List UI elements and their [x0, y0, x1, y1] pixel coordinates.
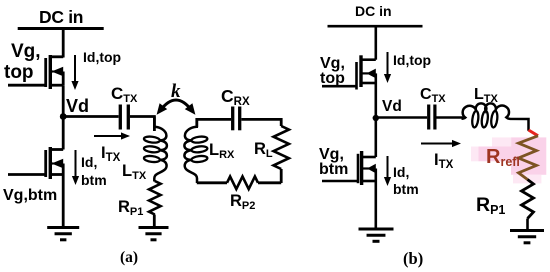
- svg-text:RL: RL: [254, 140, 273, 160]
- wire top source to Vd node (b): [374, 83, 377, 157]
- svg-text:(b): (b): [403, 249, 423, 268]
- svg-text:top: top: [320, 70, 345, 87]
- resistor R_P2 (a): [227, 177, 258, 190]
- svg-text:Vd: Vd: [382, 98, 402, 115]
- svg-text:k: k: [171, 81, 181, 102]
- inductor L_TX (b) horizontal: [462, 103, 529, 130]
- svg-text:RP1: RP1: [476, 194, 505, 217]
- svg-text:CTX: CTX: [111, 84, 138, 105]
- ground output branch (b): [510, 231, 544, 243]
- wire bottom source to ground (a): [62, 175, 65, 228]
- svg-text:RP1: RP1: [118, 198, 143, 218]
- svg-text:RP2: RP2: [230, 192, 255, 212]
- net DC in rail (a): [18, 27, 104, 30]
- svg-text:ITX: ITX: [101, 144, 121, 164]
- highlight pink box around R_refl (b): [471, 137, 546, 183]
- svg-text:DC in: DC in: [355, 3, 392, 19]
- inductor L_RX (a): [184, 119, 207, 183]
- wire C_TX to L_TX (a): [130, 117, 154, 132]
- capacitor C_TX (a): [120, 105, 128, 130]
- ground TX branch (a): [139, 228, 169, 240]
- svg-text:top: top: [4, 62, 34, 83]
- svg-text:Id,: Id,: [81, 154, 97, 170]
- wire Vd to C_TX (b): [376, 116, 427, 119]
- inductor L_TX (a): [144, 117, 167, 182]
- wire rail to top transistor drain (b): [374, 26, 377, 60]
- svg-text:btm: btm: [81, 172, 107, 188]
- svg-text:CRX: CRX: [221, 86, 250, 108]
- ground half-bridge (a): [47, 228, 79, 240]
- node Vd junction dot (a): [60, 113, 67, 120]
- resistor R_refl (b) brown zigzag: [519, 136, 539, 180]
- svg-text:Vg,btm: Vg,btm: [3, 187, 57, 204]
- svg-text:CTX: CTX: [420, 86, 446, 105]
- capacitor C_TX (b): [429, 105, 435, 130]
- svg-text:Id,top: Id,top: [83, 49, 121, 65]
- svg-text:Vg,: Vg,: [11, 41, 41, 62]
- svg-text:LRX: LRX: [209, 141, 235, 161]
- current arrow Id,btm (a): [72, 150, 79, 185]
- node Vd junction dot (b): [373, 115, 379, 121]
- svg-text:btm: btm: [319, 161, 348, 178]
- svg-text:(a): (a): [120, 249, 138, 266]
- wire C_TX to L_TX (b): [437, 116, 464, 119]
- transistor bottom MOSFET (a), Vg,btm: [8, 147, 63, 179]
- wire RX loop bottom + resistor R_P2 (a): [197, 181, 227, 184]
- current arrow Id,btm (b): [384, 156, 391, 186]
- wire top source to Vd node (a): [62, 85, 65, 149]
- wire Vd to C_TX (a): [63, 115, 118, 118]
- svg-text:Vd: Vd: [66, 96, 89, 116]
- current arrow Id,top (a): [71, 55, 78, 90]
- resistor R_L (a): [274, 126, 289, 183]
- wire R_P2 to loop right (a): [258, 181, 281, 184]
- net DC in rail (b): [328, 25, 423, 28]
- current arrow I_TX (a): [94, 132, 130, 139]
- svg-text:DC in: DC in: [39, 7, 83, 27]
- svg-text:Id,: Id,: [393, 164, 409, 180]
- svg-text:LTX: LTX: [474, 86, 499, 105]
- wire RX loop top right (a): [241, 119, 281, 126]
- svg-text:btm: btm: [393, 181, 419, 197]
- wire bottom source to ground (b): [374, 181, 377, 229]
- svg-text:ITX: ITX: [434, 151, 454, 171]
- coupling arrow k (a): [157, 100, 196, 115]
- current arrow I_TX (b): [421, 140, 461, 147]
- wire rail to top transistor drain (a): [62, 29, 65, 58]
- capacitor C_RX (a): [233, 107, 240, 131]
- resistor R_P1 (b) black zigzag: [522, 180, 534, 231]
- current arrow Id,top (b): [384, 52, 391, 83]
- resistor R_P1 (a): [149, 181, 161, 228]
- svg-text:LTX: LTX: [122, 162, 147, 182]
- transistor top MOSFET (b), Vg,top: [322, 55, 376, 89]
- transistor top MOSFET (a), Vg,top: [8, 55, 63, 89]
- transistor bottom MOSFET (b), Vg,btm: [322, 151, 376, 185]
- ground half-bridge (b): [359, 229, 394, 241]
- svg-text:Id,top: Id,top: [393, 52, 431, 68]
- red wire segment into R_refl (b): [529, 130, 539, 136]
- wire RX loop top left (a): [197, 119, 231, 127]
